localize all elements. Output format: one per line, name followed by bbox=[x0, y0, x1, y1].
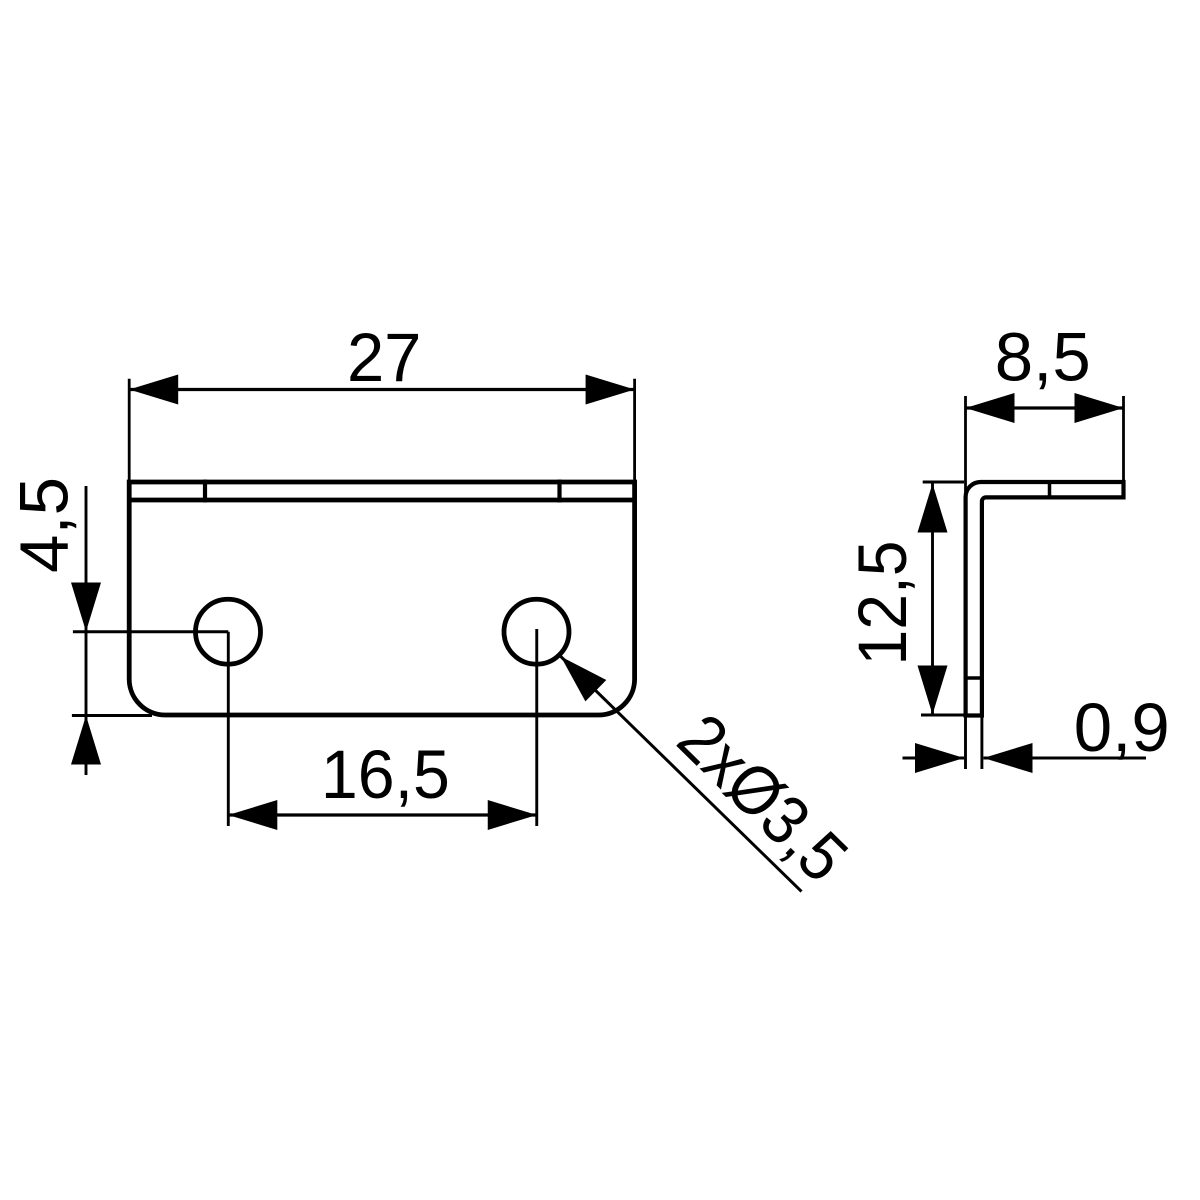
svg-text:0,9: 0,9 bbox=[1074, 689, 1170, 766]
svg-text:16,5: 16,5 bbox=[321, 736, 450, 813]
svg-text:12,5: 12,5 bbox=[844, 541, 921, 666]
svg-text:8,5: 8,5 bbox=[995, 319, 1091, 396]
svg-text:4,5: 4,5 bbox=[6, 477, 83, 573]
svg-text:27: 27 bbox=[347, 319, 422, 396]
